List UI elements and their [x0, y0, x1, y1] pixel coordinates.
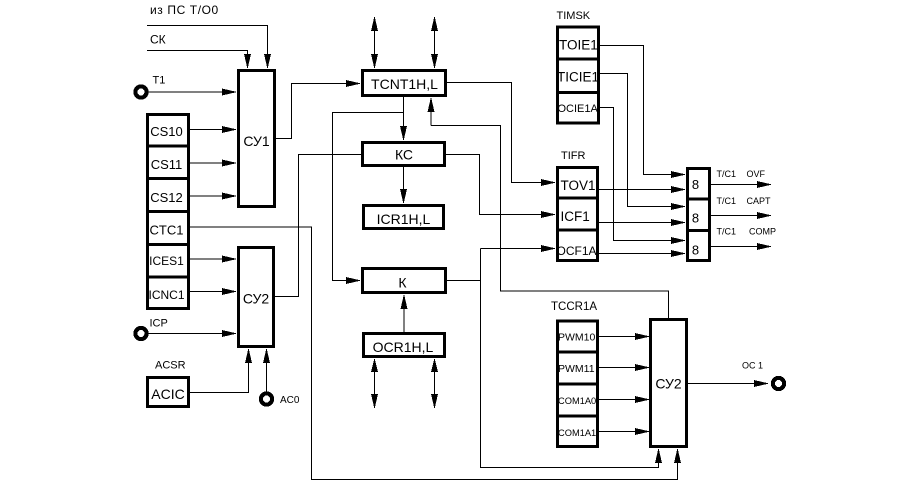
svg-text:TOIE1: TOIE1: [559, 38, 598, 53]
svg-text:8: 8: [692, 177, 699, 192]
svg-text:ICNC1: ICNC1: [148, 288, 184, 302]
svg-text:К: К: [398, 275, 407, 291]
svg-text:OCF1A: OCF1A: [557, 244, 597, 258]
svg-text:CAPT: CAPT: [747, 196, 772, 206]
svg-text:T/C1: T/C1: [717, 227, 737, 237]
svg-text:Т1: Т1: [153, 75, 166, 87]
svg-text:8: 8: [692, 211, 699, 226]
svg-text:ICES1: ICES1: [149, 254, 184, 268]
svg-text:TIMSK: TIMSK: [557, 10, 591, 22]
svg-text:CS10: CS10: [150, 124, 183, 139]
svg-text:CS11: CS11: [151, 157, 183, 172]
svg-text:OCIE1A: OCIE1A: [558, 103, 599, 115]
svg-text:ICF1: ICF1: [561, 209, 590, 224]
svg-text:PWM11: PWM11: [558, 363, 595, 375]
svg-text:СК: СК: [150, 33, 166, 47]
svg-text:ACSR: ACSR: [155, 359, 186, 371]
svg-text:TCNT1H,L: TCNT1H,L: [371, 76, 438, 92]
svg-text:CTC1: CTC1: [150, 223, 184, 238]
svg-text:из ПС Т/О0: из ПС Т/О0: [150, 3, 219, 17]
svg-text:PWM10: PWM10: [558, 332, 596, 344]
svg-text:AC0: AC0: [280, 395, 300, 406]
svg-text:ICR1H,L: ICR1H,L: [377, 211, 431, 227]
svg-text:TICIE1: TICIE1: [557, 69, 599, 84]
svg-text:8: 8: [692, 243, 699, 258]
svg-text:СУ2: СУ2: [655, 376, 682, 392]
svg-text:СУ2: СУ2: [243, 291, 270, 307]
svg-text:T/C1: T/C1: [717, 169, 737, 179]
svg-text:ICP: ICP: [150, 318, 168, 330]
svg-text:OCR1H,L: OCR1H,L: [373, 339, 434, 355]
svg-text:CS12: CS12: [150, 190, 183, 205]
svg-text:OVF: OVF: [747, 169, 766, 179]
svg-text:COM1A0: COM1A0: [558, 396, 596, 406]
svg-text:T/C1: T/C1: [717, 196, 737, 206]
svg-text:COM1A1: COM1A1: [558, 428, 596, 438]
svg-text:СУ1: СУ1: [243, 133, 270, 149]
svg-text:OC 1: OC 1: [742, 361, 763, 371]
svg-text:КС: КС: [395, 147, 413, 163]
svg-text:COMP: COMP: [749, 227, 776, 237]
svg-text:TCCR1A: TCCR1A: [551, 301, 597, 313]
svg-text:TIFR: TIFR: [561, 150, 585, 162]
svg-text:TOV1: TOV1: [561, 178, 596, 193]
svg-text:ACIC: ACIC: [151, 386, 184, 402]
